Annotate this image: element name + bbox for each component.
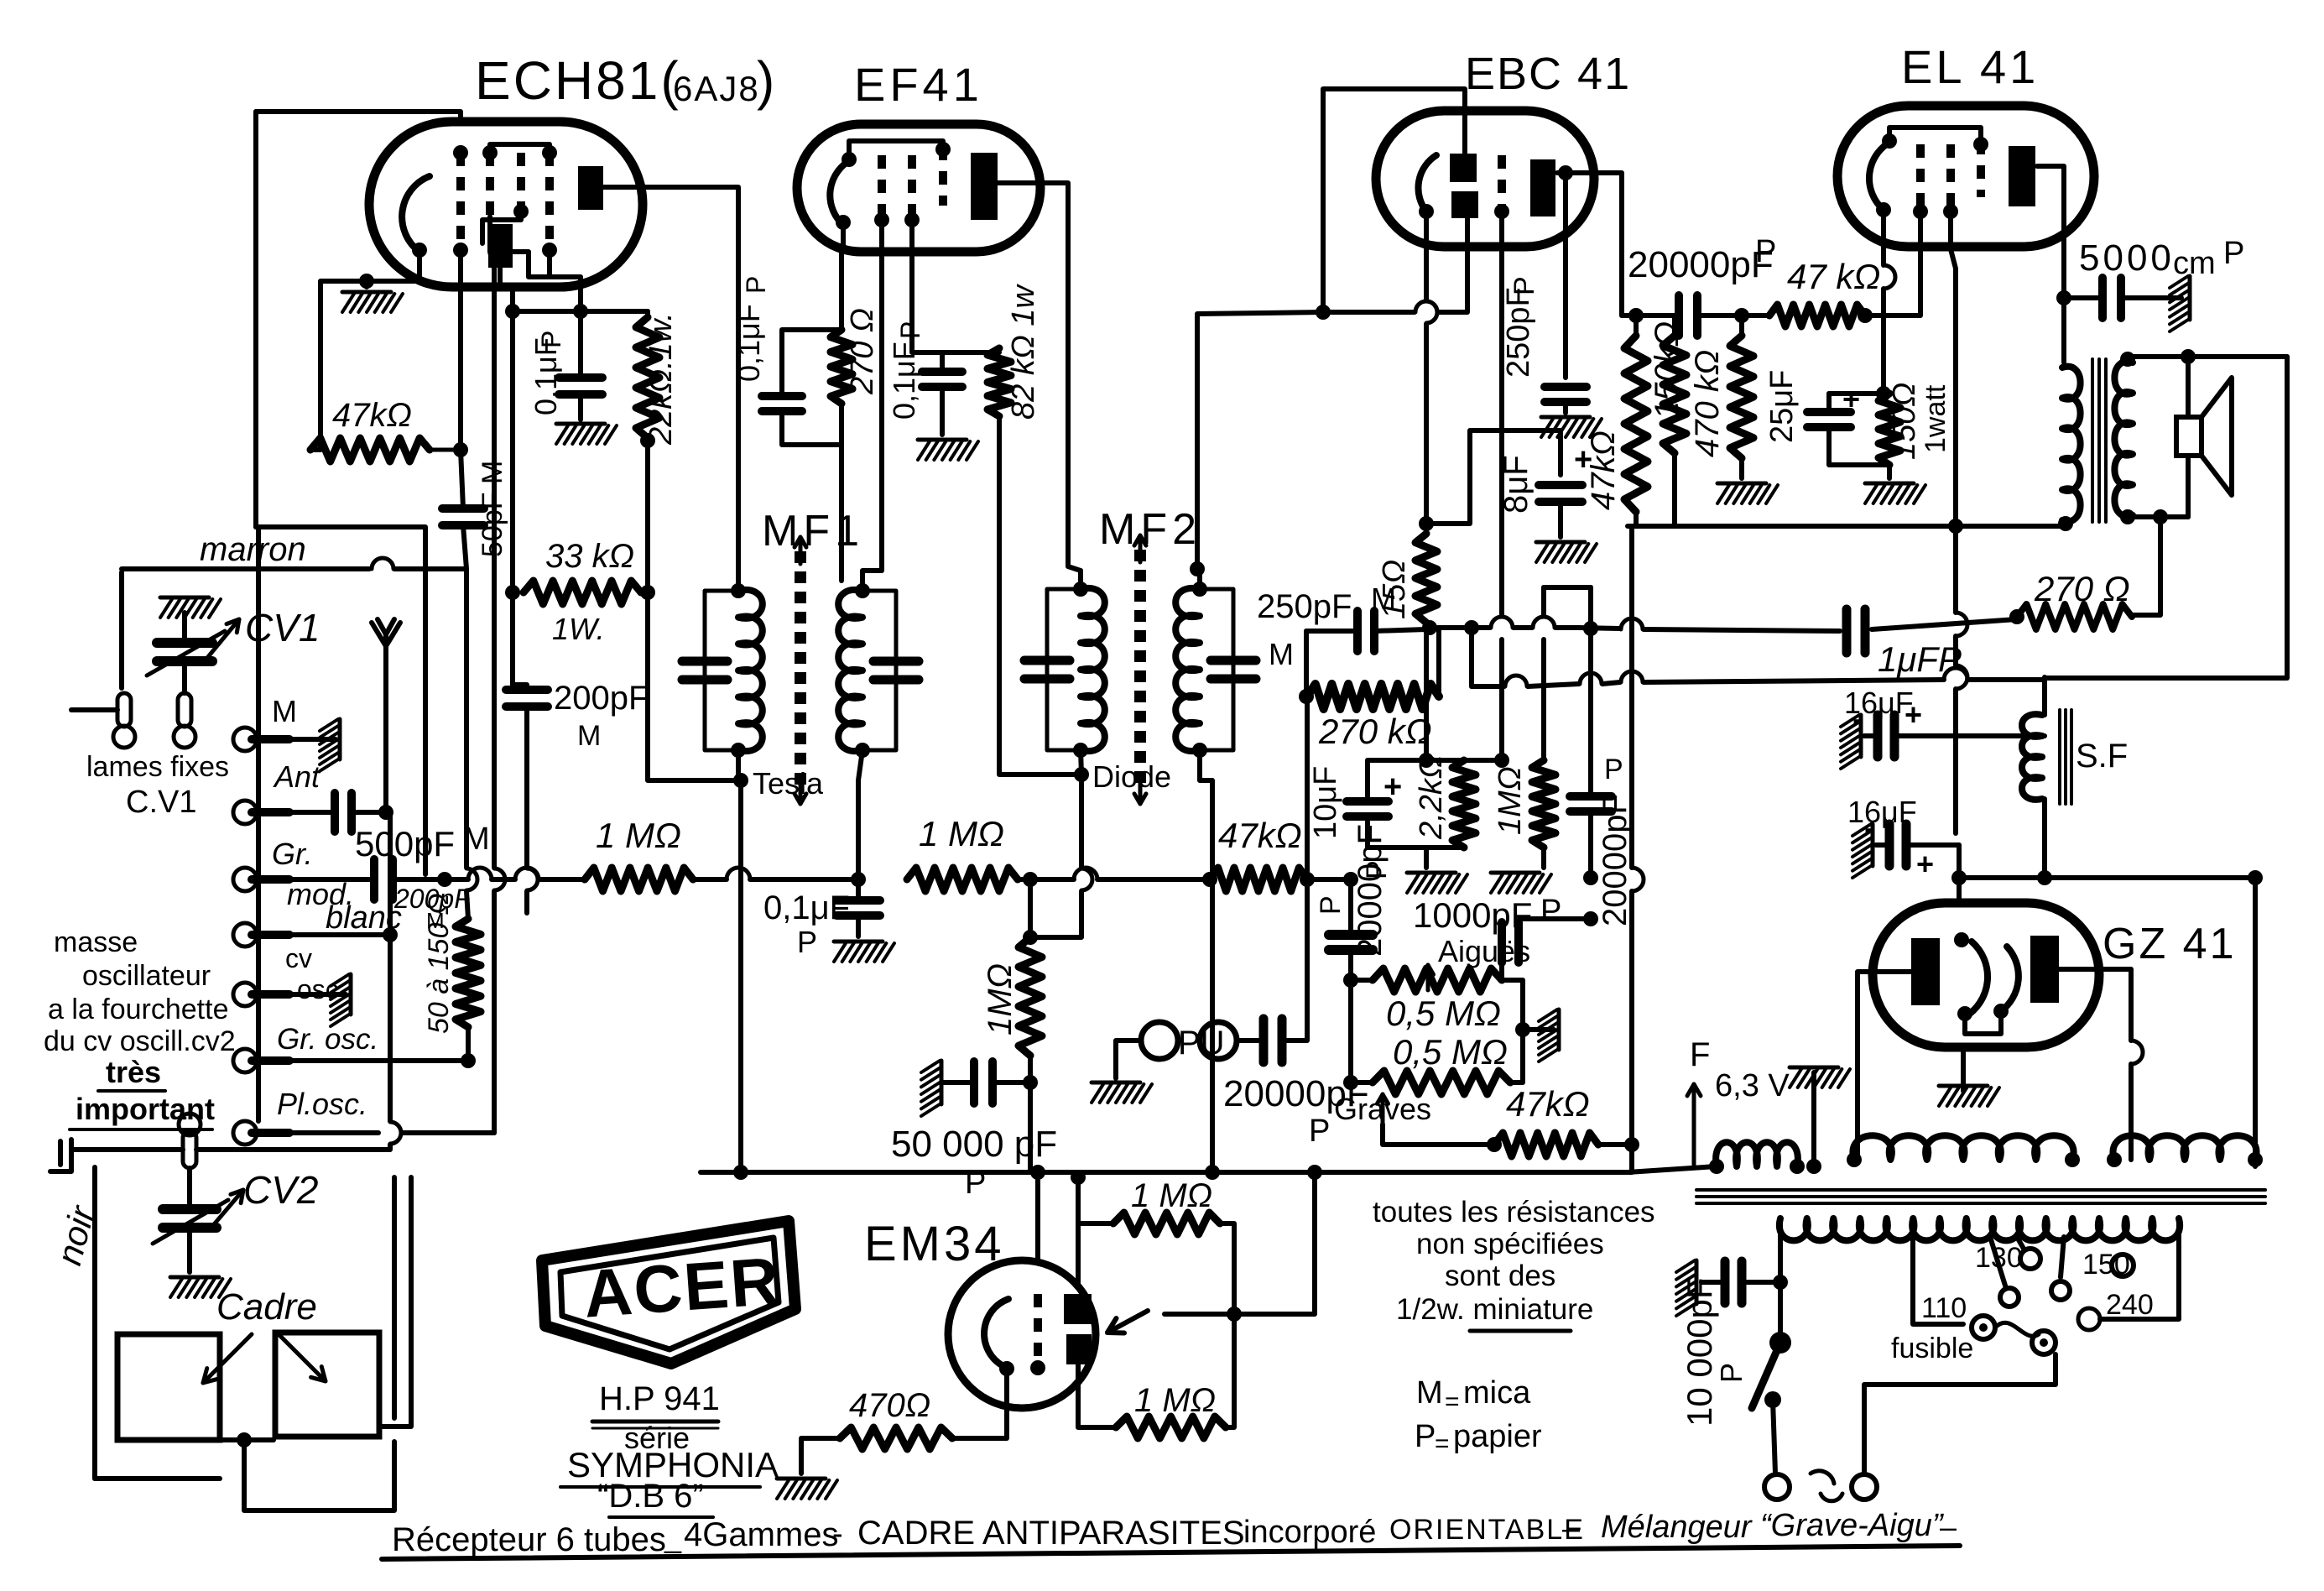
tube V5 grid — [1034, 1294, 1042, 1368]
svg-text:=: = — [1435, 1430, 1450, 1458]
svg-text:non spécifiées: non spécifiées — [1416, 1228, 1604, 1260]
wire lames fixes — [71, 707, 117, 712]
wire screen node to 82k — [942, 350, 999, 355]
wire bus mid — [693, 877, 727, 882]
wire bus down to em34 right node — [1234, 1172, 1315, 1314]
capacitor 1uF P — [1842, 609, 1852, 653]
wire cathode node to 8uF — [1426, 430, 1561, 524]
wire MF1 bottom-left to Tesla node — [736, 750, 741, 780]
tube V5 cathode — [984, 1299, 1008, 1366]
svg-text:Récepteur 6 tubes: Récepteur 6 tubes — [392, 1521, 666, 1558]
logo ACER — [542, 1221, 795, 1364]
choke SF winding — [2022, 714, 2042, 800]
svg-text:82 kΩ 1w: 82 kΩ 1w — [1006, 284, 1041, 420]
svg-text:0,5 MΩ: 0,5 MΩ — [1393, 1032, 1508, 1072]
terminal Pl osc — [252, 1129, 289, 1137]
terminal M — [252, 735, 289, 743]
svg-text:Cadre: Cadre — [216, 1286, 317, 1328]
tube V6 plate right — [2030, 936, 2059, 1003]
svg-text:incorporé: incorporé — [1243, 1515, 1376, 1550]
svg-text:1μFP: 1μFP — [1878, 639, 1962, 679]
wire HT line — [1469, 628, 1474, 686]
svg-text:0,1μF: 0,1μF — [529, 337, 563, 415]
svg-text:Ant: Ant — [273, 759, 321, 794]
capacitor 16uF upper — [1873, 715, 1883, 757]
wire speaker voice coil — [2186, 357, 2191, 417]
tube V1 pin stubs — [453, 145, 468, 160]
tube V4 grid g1 — [1916, 144, 1925, 211]
wire cv osc to ground — [289, 992, 346, 997]
capacitor 25uF electrolytic — [1807, 408, 1851, 416]
output transformer primary — [2062, 367, 2081, 522]
svg-text:47kΩ: 47kΩ — [1585, 430, 1622, 510]
svg-text:P: P — [1361, 860, 1393, 879]
svg-text:250pF: 250pF — [1501, 287, 1536, 378]
svg-text:P: P — [797, 925, 817, 959]
switch terminal 2 — [1852, 1474, 1877, 1500]
wire EF41 plate to MF2 primary — [998, 183, 1081, 589]
wire rectifier output line — [1959, 875, 2255, 880]
mains primary winding — [1779, 1218, 2180, 1240]
tube V6 plate left — [1911, 938, 1940, 1005]
svg-text:du cv oscill.cv2: du cv oscill.cv2 — [44, 1025, 236, 1057]
tube V5 EM34 envelope — [948, 1260, 1096, 1408]
tube V6 GZ41 envelope — [1873, 903, 2099, 1047]
tube V2 plate — [971, 153, 998, 220]
wire 47k tone right to vertical — [1598, 1142, 1632, 1147]
svg-text:très: très — [106, 1055, 161, 1089]
ground 470 — [801, 1438, 840, 1474]
wire marron junction down to osc resistor — [464, 569, 469, 868]
wire EBC41 cathode down with hop — [1424, 211, 1429, 300]
svg-text:50 à 150 Ω: 50 à 150 Ω — [423, 893, 455, 1034]
wire EBC41 top bracket — [1323, 89, 1465, 312]
svg-text:6AJ8: 6AJ8 — [673, 69, 760, 108]
resistor 1M vertical PU — [1019, 937, 1042, 1056]
wire triode plate down to 33k node — [500, 269, 513, 311]
terminal pin CV1 b — [117, 693, 131, 727]
wire SF bottom to rectifier node — [2042, 799, 2047, 878]
arrow cadre right — [277, 1333, 326, 1381]
ground 16uF lower — [1871, 824, 1875, 866]
svg-text:CV2: CV2 — [243, 1168, 318, 1212]
svg-text:mica: mica — [1463, 1375, 1531, 1411]
svg-text:+: + — [1916, 847, 1934, 881]
transformer MF1 core arrows — [799, 537, 803, 564]
wire ECH81 grid1 vertical down — [458, 252, 463, 450]
ground heater mid — [1790, 1066, 1838, 1070]
svg-text:C.V1: C.V1 — [126, 785, 196, 820]
ground CV2 — [170, 1275, 219, 1280]
resistor 47k tone — [1494, 1133, 1598, 1156]
wire 500pF to junction — [394, 877, 445, 882]
svg-text:=: = — [1445, 1388, 1460, 1416]
tube V3 cathode — [1418, 155, 1436, 211]
tube V1 grid g3 — [517, 153, 525, 211]
tube V5 deflector arrow — [1107, 1311, 1148, 1333]
svg-text:250pF: 250pF — [1257, 588, 1352, 625]
wire MF2 bottom-left down to diode junction — [1081, 750, 1081, 775]
resistor 33k — [524, 581, 641, 604]
svg-text:“D.B 6”: “D.B 6” — [597, 1478, 704, 1515]
tube V2 grid g2 — [908, 155, 916, 220]
resistor 1M AVC 1 — [585, 868, 693, 891]
svg-text:1 MΩ: 1 MΩ — [919, 814, 1004, 853]
connector PU — [1141, 1022, 1178, 1059]
svg-text:P: P — [741, 276, 771, 294]
ground 2,2k — [1424, 848, 1429, 868]
resistor 15ohm — [1415, 534, 1437, 623]
svg-text:47kΩ: 47kΩ — [1506, 1084, 1590, 1124]
wire EF41 cathode bottom down — [839, 445, 844, 581]
wire 47k to EL41 grid — [1865, 211, 1920, 316]
svg-text:1MΩ: 1MΩ — [982, 963, 1019, 1035]
wire bus hops then 1M — [445, 877, 468, 882]
capacitor 250pF P anode — [1563, 173, 1568, 378]
resistor 270k — [1307, 684, 1439, 709]
wire PU to cap — [1237, 1038, 1261, 1043]
wire ECH81 cathode down — [367, 252, 419, 287]
wire left vertical from top — [253, 112, 258, 527]
wire M to ground — [289, 737, 336, 742]
transformer MF2 primary winding — [1081, 588, 1105, 751]
svg-text:masse: masse — [54, 926, 138, 958]
svg-text:4Gammes: 4Gammes — [684, 1516, 839, 1553]
junction cadre — [237, 1432, 252, 1448]
ground 470k — [1717, 482, 1766, 486]
capacitor 10000pF mains — [1721, 1261, 1730, 1303]
svg-text:P: P — [2223, 236, 2244, 271]
wire marron to CV1 — [119, 572, 124, 688]
ground 1M volume — [1541, 848, 1546, 868]
svg-text:240: 240 — [2106, 1289, 2154, 1321]
resistor 1M volume — [1532, 760, 1555, 848]
svg-text:33 kΩ: 33 kΩ — [545, 538, 634, 575]
capacitor 50000pF — [970, 1062, 978, 1103]
transformer MF2 terminal dots — [1073, 582, 1088, 597]
wire em34 target connection — [1165, 1312, 1234, 1317]
cadre loop left — [117, 1334, 220, 1440]
wire 1000pF to coupling node — [1519, 919, 1591, 942]
capacitor 0,1uF P detector — [836, 896, 880, 905]
svg-text:a la fourchette: a la fourchette — [48, 994, 228, 1025]
svg-text:1000pF: 1000pF — [1413, 895, 1532, 935]
svg-text:270 Ω: 270 Ω — [2034, 569, 2130, 608]
cadre loop right — [275, 1333, 379, 1437]
svg-text:6,3 V: 6,3 V — [1715, 1068, 1790, 1103]
resistor 470 EM34 — [840, 1427, 952, 1449]
wire x1945 vertical — [1629, 526, 1634, 868]
svg-text:0,1μF: 0,1μF — [732, 304, 766, 382]
capacitor 16uF lower — [1885, 824, 1894, 866]
wire 82k down to MF2 bottom — [999, 416, 1076, 775]
wire 1M top through AF line — [1541, 639, 1546, 760]
wire bottom bus — [701, 1170, 1628, 1175]
tube V3 diode plate 2 — [1451, 191, 1478, 218]
wire speaker return down to 270ohm — [2132, 517, 2160, 615]
wire tone mid node down — [1348, 980, 1353, 1082]
wire top-left to ECH81 grid1 — [256, 112, 461, 122]
svg-text:10μF: 10μF — [1308, 766, 1343, 839]
capacitor 0,1uF ECH81 screen — [559, 373, 602, 382]
terminal pin CV2 — [183, 1131, 196, 1168]
svg-text:cv: cv — [285, 943, 312, 973]
tube V2 grid g3 — [939, 147, 947, 206]
capacitor 20000pF P series — [1675, 295, 1683, 336]
svg-text:M: M — [463, 822, 490, 857]
wire MF2 bottom-right down — [1200, 750, 1212, 1172]
wire 47k left end — [310, 447, 320, 452]
capacitor 8uF electrolytic — [1539, 481, 1582, 489]
wire bus end to tone cap — [1307, 877, 1351, 882]
svg-text:10 000pF: 10 000pF — [1680, 1278, 1719, 1427]
wire EL41 plate to OT — [2037, 166, 2064, 363]
transformer MF2 right tuning cap — [1200, 589, 1233, 750]
wire EBC41 plate right — [1557, 173, 1622, 316]
wire OT secondary bottom — [2128, 515, 2188, 517]
svg-text:47 kΩ: 47 kΩ — [1787, 257, 1880, 296]
output transformer core — [2091, 359, 2094, 522]
caption underline — [382, 1546, 1960, 1559]
wire terminal strip vertical — [256, 527, 261, 1121]
tube V4 cathode — [1869, 141, 1892, 210]
svg-text:270 Ω: 270 Ω — [845, 308, 880, 395]
ground 50000pF side — [940, 1061, 944, 1104]
tube V3 diode plate 1 — [1450, 154, 1477, 182]
svg-text:1MΩ: 1MΩ — [1493, 766, 1528, 835]
wire 50a150 bottom — [466, 1027, 471, 1061]
wire heater bus left — [1628, 1166, 1717, 1172]
resistor 270ohm — [2017, 604, 2132, 629]
tube V6 filament arcs — [1965, 942, 1988, 1017]
svg-text:P: P — [1415, 1419, 1436, 1454]
svg-text:470Ω: 470Ω — [849, 1387, 930, 1424]
svg-text:P: P — [1509, 276, 1540, 295]
svg-text:MF1: MF1 — [762, 507, 864, 556]
resistor 47k grid EL41 — [1769, 305, 1865, 326]
wire MF1 secondary bottom down to bus — [858, 750, 862, 879]
wire graves right up to ground node — [1510, 1030, 1523, 1082]
svg-text:110: 110 — [1921, 1292, 1967, 1324]
resistor 0,5M graves — [1373, 1071, 1510, 1094]
wire PU left ground — [1116, 1041, 1141, 1078]
wire 22k top to plate feed — [645, 311, 650, 317]
svg-text:M: M — [1269, 637, 1294, 671]
wire right edge vertical — [2285, 357, 2290, 677]
svg-text:1 MΩ: 1 MΩ — [1134, 1382, 1216, 1419]
transformer MF1 right tuning cap — [862, 591, 896, 750]
transformer MF2 left tuning cap — [1047, 589, 1081, 750]
capacitor 200pF — [506, 686, 548, 694]
resistor 47k vertical B+ — [1663, 336, 1686, 453]
capacitor variable CV1 — [182, 613, 187, 638]
wire OT secondary top to speaker line — [2128, 357, 2287, 363]
tube V3 grid — [1498, 155, 1506, 211]
wire cadre to bus hop — [392, 1442, 397, 1463]
tap 110 — [1913, 1218, 1963, 1324]
svg-text:CADRE ANTIPARASITES: CADRE ANTIPARASITES — [857, 1515, 1245, 1552]
resistor 47k det — [1210, 868, 1307, 891]
ground CV1 — [160, 596, 209, 600]
wire antenna line down to CV2 — [388, 812, 393, 1121]
svg-text:–: – — [1940, 1510, 1957, 1544]
terminal pin CV1 a — [178, 693, 191, 727]
wire EBC41 grid down — [1499, 211, 1504, 616]
transformer MF1 secondary winding — [838, 590, 862, 751]
svg-text:ACER: ACER — [581, 1244, 783, 1332]
capacitor 20000pF coupling to EBC grid — [1570, 792, 1612, 801]
wire ECH81 screen node — [513, 309, 648, 314]
svg-text:ECH81(: ECH81( — [475, 50, 681, 111]
capacitor 250pF M — [1353, 611, 1362, 651]
svg-text:EF41: EF41 — [854, 58, 983, 111]
ground 0,1uF det — [834, 940, 883, 944]
power transformer core lines — [1696, 1188, 2265, 1192]
ground 0,1uF screen — [556, 422, 605, 426]
wire HT line right portion — [2045, 676, 2287, 681]
svg-text:cm: cm — [2173, 246, 2216, 281]
svg-text:150Ω: 150Ω — [1887, 383, 1922, 460]
terminal Gr osc — [252, 1056, 289, 1065]
speaker frame — [2176, 417, 2202, 456]
svg-text:16μF: 16μF — [1844, 686, 1914, 720]
transformer MF1 terminal dots — [731, 583, 746, 598]
svg-text:20000pF: 20000pF — [1597, 794, 1634, 926]
svg-text:S.F: S.F — [2076, 738, 2128, 775]
tube V4 grid g2 — [1946, 144, 1955, 211]
svg-text:toutes les résistances: toutes les résistances — [1373, 1196, 1655, 1228]
capacitor 20000pF PU — [1259, 1019, 1269, 1062]
terminal blanc — [252, 931, 289, 939]
svg-text:PU: PU — [1178, 1025, 1225, 1062]
wire left L to bus — [256, 527, 425, 874]
svg-text:sont des: sont des — [1445, 1260, 1555, 1292]
capacitor 20000pF tone — [1329, 930, 1373, 940]
svg-text:H.P 941: H.P 941 — [599, 1380, 720, 1417]
wire noir vertical — [92, 1167, 97, 1479]
wire CV1 stem — [182, 663, 187, 693]
svg-text:20000pF: 20000pF — [1352, 824, 1389, 957]
tube V2 grid g1 — [878, 155, 886, 220]
svg-text:0,1μF: 0,1μF — [887, 342, 921, 420]
wire 611 down to 33k — [510, 311, 515, 592]
wire cadre bottom routing — [244, 1440, 394, 1510]
svg-text:M: M — [272, 694, 297, 728]
wire GZ41 left plate to HV — [1858, 972, 1911, 1160]
wire 1M vert bottom to PU cap — [1028, 1056, 1033, 1082]
svg-text:1W.: 1W. — [552, 612, 605, 646]
capacitor 50pF — [442, 504, 484, 513]
svg-text:EM34: EM34 — [864, 1217, 1005, 1271]
tap 150 — [2061, 1237, 2064, 1277]
ground 250pF P — [1541, 415, 1590, 420]
wire ECH81 hexode plate to MF1 top-left — [603, 187, 738, 591]
wire mains left down to switch — [1778, 1218, 1783, 1338]
svg-text:EBC 41: EBC 41 — [1465, 49, 1631, 99]
wire CV2 stem top — [187, 1168, 192, 1203]
svg-text:“Grave-Aigu”: “Grave-Aigu” — [1760, 1508, 1945, 1543]
rectifier heater winding — [1852, 1135, 2073, 1160]
ground 5000cm — [2188, 276, 2192, 320]
tube V1 triode plate — [488, 224, 513, 268]
svg-text:Diode: Diode — [1092, 759, 1171, 794]
wire OT primary bottom B+ line — [1628, 520, 2066, 526]
fuse — [1972, 1316, 1995, 1339]
tap 130 lower circle — [1990, 1237, 2005, 1286]
wire EM34 grid feed — [1035, 1172, 1040, 1260]
capacitor 0,1uF EF41 screen — [922, 368, 962, 376]
svg-text:+: + — [1383, 769, 1402, 805]
terminal Gr — [252, 875, 289, 884]
wire AVC junction — [1316, 305, 1331, 320]
resistor 82k screen feed — [987, 348, 1011, 416]
svg-text:47kΩ: 47kΩ — [1218, 816, 1302, 855]
tube V2 inner top bracket — [849, 141, 943, 159]
wire plug to CV2 pin — [71, 1147, 183, 1152]
wire Tesla node down to bottom bus — [738, 780, 743, 1172]
capacitor 5000cm P — [2098, 278, 2107, 318]
svg-text:M: M — [1371, 582, 1396, 616]
wire aigues right to ground node — [1502, 980, 1523, 1030]
svg-text:200pF: 200pF — [554, 680, 649, 717]
wire 47k right to grid line — [430, 448, 461, 452]
svg-text:500pF: 500pF — [355, 824, 455, 863]
svg-text:_: _ — [664, 1520, 682, 1554]
resistor 270 cathode EF41 — [831, 330, 852, 404]
tube V4 plate — [2009, 146, 2035, 206]
svg-text:): ) — [757, 50, 774, 111]
speaker cone — [2202, 378, 2232, 495]
capacitor variable CV2 — [163, 1204, 216, 1214]
tube V2 cathode — [830, 159, 852, 225]
tube V2 EF41 envelope — [797, 124, 1040, 252]
transformer MF2 core arrows — [1139, 535, 1143, 562]
wire 33k node down 200pF — [510, 592, 515, 685]
svg-text:2,2kΩ: 2,2kΩ — [1414, 754, 1449, 840]
svg-text:1 MΩ: 1 MΩ — [1131, 1177, 1212, 1214]
wire cadre right vertical — [379, 1177, 411, 1427]
svg-text:470 kΩ: 470 kΩ — [1689, 350, 1726, 457]
tube V5 target plates — [1064, 1294, 1092, 1324]
svg-text:P: P — [895, 321, 925, 339]
capacitor 1000pF — [1498, 922, 1506, 962]
svg-text:0,1μF: 0,1μF — [763, 889, 850, 926]
resistor 0,5M aigues — [1373, 968, 1502, 992]
wire EM34 plate feed — [1076, 1177, 1081, 1284]
ground 150ohm — [1887, 465, 1892, 478]
svg-text:0,5 MΩ: 0,5 MΩ — [1386, 994, 1501, 1033]
wire Pl osc right — [289, 1130, 378, 1135]
ground GZ41 filament — [1939, 1084, 1988, 1088]
wire 22k bottom to 33k right — [645, 441, 650, 592]
resistor 1M AVC 2 — [907, 868, 1018, 891]
ground 10000pF — [1695, 1260, 1699, 1304]
wire 22k junction down to MF1 via Tesla — [648, 592, 741, 780]
tube V1 hexode plate — [578, 166, 603, 210]
ground tone — [1523, 1027, 1554, 1032]
tube V1 inner top bracket — [490, 144, 550, 153]
tube V6 filament wires — [1965, 1011, 2001, 1034]
tube V3 EBC41 envelope — [1376, 111, 1594, 247]
switch mains — [1769, 1332, 1791, 1354]
capacitor 10uF electrolytic — [1347, 797, 1389, 806]
tube V1 grid g4 — [545, 153, 554, 252]
svg-text:Tesla: Tesla — [753, 766, 824, 801]
svg-text:16μF: 16μF — [1847, 795, 1917, 829]
ground EF41 screen cap — [918, 438, 967, 442]
svg-text:MF2: MF2 — [1099, 505, 1201, 554]
svg-text:papier: papier — [1453, 1419, 1542, 1454]
